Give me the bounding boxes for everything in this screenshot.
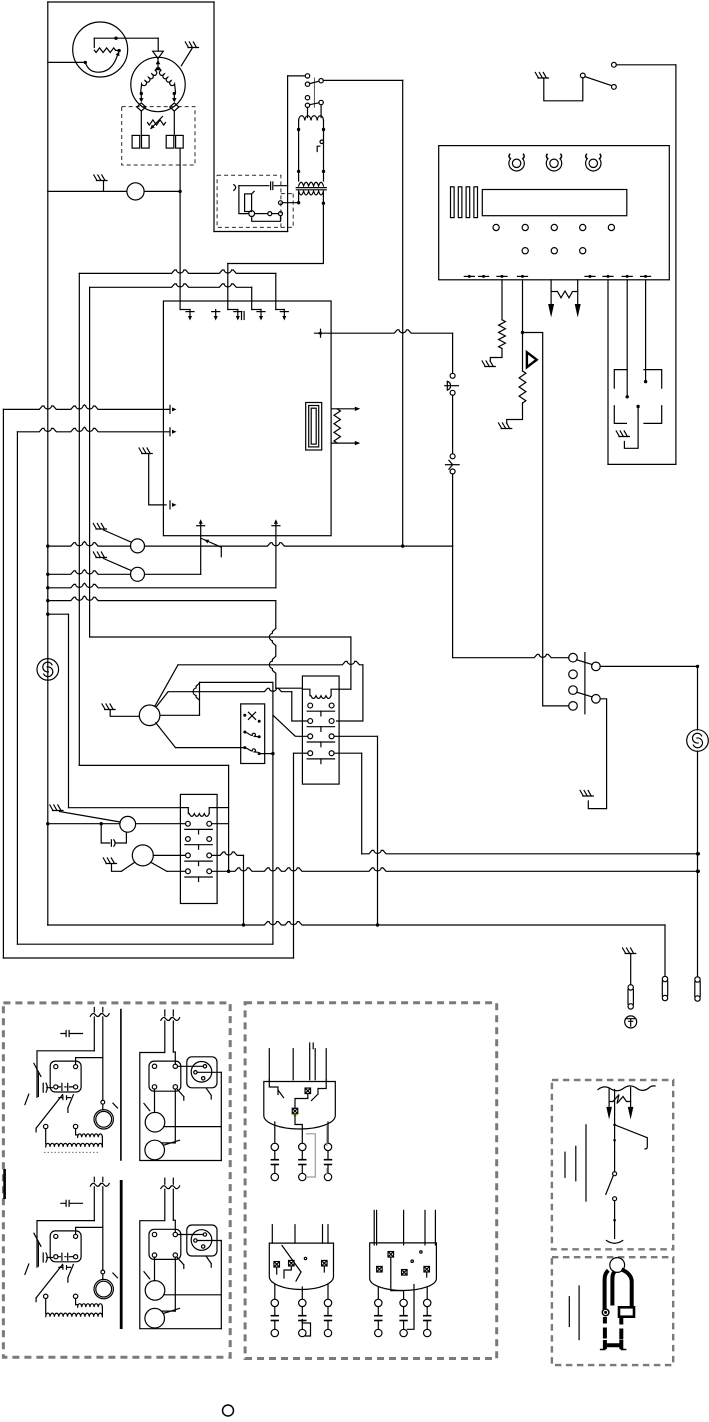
heater dropper resistor [550, 280, 552, 292]
display window [482, 190, 627, 216]
option box 2 border [245, 1003, 497, 1359]
fan motor M2 [37, 659, 59, 681]
board pin left 1 [172, 407, 177, 411]
control board outline [163, 301, 331, 536]
wire K3 row1 right [212, 823, 229, 825]
wire program to bus [261, 753, 273, 755]
wire pump to bus [200, 681, 273, 683]
control panel outline [439, 146, 670, 280]
wire motor out [197, 1071, 221, 1073]
wire board to pressure switches [315, 330, 453, 333]
wire K2 row3 right [334, 735, 377, 737]
board pin right [317, 331, 322, 335]
wire heater element [45, 1299, 47, 1314]
PTC resistor with arrow [148, 120, 166, 125]
capacitor marks [241, 312, 243, 320]
ground R1 [482, 361, 495, 367]
ground M4 [103, 858, 116, 864]
wire sensor left leg [239, 186, 249, 214]
motor terminal circle [101, 1270, 105, 1274]
heater connector block [306, 403, 322, 451]
wire line 3 [48, 583, 276, 588]
connector diagram 3 [370, 1210, 437, 1336]
pump motor M3 [139, 705, 160, 726]
aux motor housing [187, 1057, 217, 1088]
wire lock pin 1 [607, 280, 609, 465]
wire switch to panel column [323, 79, 402, 81]
timer relay box [50, 1231, 81, 1262]
motor terminal circle [101, 1100, 105, 1104]
sensor body rect [245, 194, 252, 212]
wire relay to motor [178, 1234, 204, 1236]
board pin left 2 [172, 430, 177, 434]
resistor heater sense [334, 409, 340, 443]
terminal cap mark [61, 1200, 83, 1206]
pressure switch P1 [450, 373, 455, 378]
wire break in [93, 1008, 95, 1013]
relay K3 contact 3 [186, 853, 191, 858]
wire supply line 1 [3, 405, 169, 410]
wire to start capacitor [173, 111, 175, 135]
wire K2 row4 right [334, 752, 362, 754]
indicator lamp L2 [550, 159, 558, 167]
wire line 4 to relay coil [48, 596, 276, 601]
ground T2 [93, 552, 106, 558]
wire fuse column [614, 1090, 616, 1172]
wire pin to bleed resistor [501, 280, 503, 320]
wire fuse tap [615, 1125, 648, 1149]
transformer T1 secondary [299, 191, 324, 195]
start device dashed box [122, 107, 195, 165]
option D diagram [140, 1178, 222, 1329]
wire bottom bus 1 [48, 922, 665, 925]
aux pump 2 [145, 1140, 165, 1160]
wire left rail [47, 2, 49, 925]
relay K2 contact 2 [308, 719, 313, 724]
wire M4 to relay row4 [151, 863, 167, 872]
ground T1 [93, 524, 106, 530]
door interlock lever [202, 539, 222, 548]
wire door switch ground leg [588, 699, 606, 809]
wire feed line C [79, 270, 275, 273]
lever marks [178, 1090, 184, 1101]
fuse switch [613, 1172, 617, 1176]
wire K3 row3 right [212, 852, 244, 855]
wire long vertical to wash level [402, 80, 404, 546]
wire K3 coil right [217, 807, 229, 809]
ground capsule1 [623, 948, 636, 954]
thermostat T2 [131, 567, 145, 581]
timer motor [94, 1110, 113, 1129]
wire aux rail [228, 765, 230, 871]
wire board pin2 line to motor relay [273, 715, 294, 735]
fuse capsule 3 [695, 977, 700, 982]
wire switch to relay coil [307, 108, 309, 118]
board pin bottom 2 [275, 522, 277, 536]
thermostat T1 [131, 539, 145, 553]
capacitor C-start plates [166, 135, 174, 148]
capacitor left [38, 1242, 43, 1266]
fuse capsule 1 [628, 985, 633, 990]
display segment bars [451, 187, 455, 218]
heater terminals [44, 1294, 48, 1298]
fuse capsule 2 [662, 976, 667, 981]
indicator lamp L1 [512, 159, 520, 167]
wire bus down to board pin [227, 264, 229, 310]
ground board [139, 448, 152, 454]
board pin bottom 1 [200, 522, 202, 536]
option box 1 border [3, 1003, 230, 1357]
wire pump top left [156, 692, 168, 707]
wire heat feed [79, 764, 228, 766]
wire relay to pump2 [174, 1257, 176, 1311]
relay K2 contact 4 [308, 751, 313, 756]
connector diagram 1 [264, 1043, 336, 1181]
panel connector pins [464, 275, 474, 277]
wire switch to right rail [616, 64, 676, 66]
relay K1 coil [299, 116, 324, 121]
board pin 1 [189, 310, 191, 318]
wire connector to transformer [283, 202, 299, 204]
capacitor T3 snubber [101, 824, 110, 843]
capacitor C3 [239, 185, 288, 187]
wire motor tap left [140, 94, 142, 101]
wire left rail to cutout [48, 190, 127, 192]
wire bus rail D [89, 287, 91, 637]
wire capacitor to thermal cutout [179, 148, 181, 309]
option box 4 border [552, 1257, 673, 1365]
panel buttons row 2 [522, 248, 528, 254]
relay K3 contact 4 [186, 869, 191, 874]
wire pump lower diagonal [156, 723, 176, 748]
wire pin to buzzer branch [522, 280, 524, 333]
lever marks [178, 1258, 184, 1269]
wire right rail [675, 65, 677, 465]
wire to door switch [453, 654, 569, 657]
wire relay to pump1 [154, 1089, 156, 1112]
wire jog pin5 [276, 309, 285, 311]
overload bimetal arc [85, 54, 118, 72]
relay contact marks [58, 1253, 73, 1260]
wire relay to pump1 [154, 1257, 156, 1280]
door switch contacts [569, 653, 578, 662]
wire motor tap right [173, 94, 175, 101]
wire bottom bus 3 [3, 957, 293, 959]
wire line 5 to wash relay coil [48, 613, 69, 615]
overload protector circle [73, 22, 128, 77]
wire to motor branch [102, 1187, 104, 1270]
wire pump1 out [164, 1126, 221, 1128]
wire door row4 feed [543, 705, 569, 707]
wire overload feed [48, 61, 86, 63]
wire relay to pump2 [174, 1089, 176, 1143]
wire to relay [172, 1189, 174, 1220]
relay K3 contact 2 [186, 837, 191, 842]
wire K2 row3 left [295, 735, 308, 738]
divider lower [120, 1180, 123, 1329]
wire T2 to board pin [145, 573, 201, 575]
wire K2 row4 left [294, 752, 308, 754]
wire right rail lower [697, 751, 699, 977]
main motor M4 circle [132, 845, 153, 866]
wire pump right [160, 714, 200, 716]
motor winding right [159, 68, 175, 92]
wire bus rail A [2, 409, 4, 958]
wire heater stub 1 [331, 408, 355, 410]
motor M1 circle [131, 57, 185, 111]
contact bars below [59, 1266, 71, 1270]
lock connector brackets [614, 370, 626, 389]
wire to relay left [37, 1051, 94, 1098]
capacitor left [38, 1073, 43, 1097]
motor relay K2 box [302, 676, 339, 784]
wire to capsule2 [664, 925, 666, 976]
connector diamond right [170, 103, 179, 111]
wire M4 to relay row3 [153, 854, 185, 856]
wire secondary right to bus [228, 191, 324, 263]
program contact 2 [243, 731, 246, 734]
panel buttons row 1 [493, 224, 499, 230]
wire bottom bus 2 [17, 943, 273, 945]
terminal cap mark [61, 1031, 83, 1037]
aux pump 1 [145, 1112, 165, 1132]
wire jog pin3 [228, 309, 238, 311]
thermal fuse diagram [565, 1086, 655, 1243]
option box 3 border [552, 1080, 673, 1249]
heater terminals [44, 1124, 48, 1128]
earth terminal [625, 1016, 637, 1028]
aux pump 1 [145, 1281, 165, 1301]
wire T3 to relay [136, 823, 186, 825]
wire jog pin4 [252, 309, 261, 311]
wire frame bottom to switch [214, 231, 288, 233]
wire lock pin 2 [626, 280, 628, 397]
wire lock pin 3 [645, 280, 647, 382]
relay K2 contact 1 [308, 703, 313, 708]
ground door lock [616, 431, 629, 437]
ground door contact [580, 791, 593, 797]
wire to motor branch [102, 1017, 104, 1100]
relay K3 contact 1 [186, 821, 191, 826]
wire bus rail B [16, 432, 18, 944]
wire break in [164, 1010, 166, 1016]
thermal cutout circle [127, 183, 144, 200]
thermostat T3 [120, 816, 136, 832]
wire frame right vertical [213, 2, 215, 232]
board pin 4 [260, 310, 262, 318]
aux motor housing [187, 1225, 217, 1256]
wire branch to door switch [523, 333, 543, 706]
wire relay to motor [178, 1065, 204, 1067]
wire connector links [255, 213, 268, 215]
connector diamond left [137, 103, 146, 111]
relay K3 coil [180, 808, 188, 814]
wire heat line [48, 823, 120, 825]
program contact 1 [243, 714, 246, 717]
wire pump1 out [164, 1294, 221, 1296]
contact bars below [59, 1096, 71, 1100]
wire overload to motor [94, 37, 158, 39]
transformer T1 primary [299, 182, 324, 186]
lever diagonals [34, 1233, 41, 1246]
wire pump top right [178, 661, 363, 664]
relay K1 contact [320, 140, 324, 144]
switch S3 pivot [580, 73, 585, 78]
wire top frame [48, 1, 214, 3]
aux relay box [149, 1229, 181, 1259]
connector 3 link wire [391, 1257, 404, 1299]
board pin left 3 [172, 503, 177, 507]
aux pump 2 [145, 1308, 165, 1328]
wire thermostat line 2 [48, 570, 131, 575]
terminal bars [564, 1152, 566, 1177]
relay contact marks [58, 1083, 73, 1090]
wire right rail upper [697, 666, 699, 729]
wire heater element [45, 1129, 47, 1144]
colour dot [223, 1405, 234, 1416]
wire door to right rail [600, 665, 697, 667]
motor apex triangle [153, 51, 164, 58]
relay K2 coil [302, 689, 310, 696]
option B diagram [140, 1010, 222, 1161]
capacitor C-run plates [132, 135, 140, 148]
board pin 5 [283, 310, 285, 318]
aux relay box [149, 1061, 181, 1091]
border tick [3, 1169, 6, 1199]
wire heater stub 2 [331, 442, 355, 444]
option C diagram [25, 1177, 118, 1316]
buzzer triangle [527, 352, 537, 367]
sensor grommet circle [249, 211, 255, 217]
wash relay K3 box [180, 794, 217, 903]
wire break in [93, 1177, 95, 1182]
overload heater resistor [93, 38, 95, 47]
wire drain line [362, 850, 699, 853]
wire break in [164, 1178, 166, 1184]
ground R2 [499, 423, 512, 429]
board pin 3 [237, 310, 239, 318]
ground door switch [535, 73, 548, 79]
board pin 2 [215, 310, 217, 318]
wire pin1 to thermostat line [200, 536, 202, 575]
wire pressure switch column [452, 333, 454, 373]
wire left loop [140, 1189, 222, 1329]
sensor dashed box [217, 175, 281, 227]
relay K2 contact 3 [308, 734, 313, 739]
wire lock ground loop [636, 405, 639, 408]
wire K3 row4 right long [212, 868, 699, 871]
wire feed line D [90, 284, 252, 287]
ground T3 [50, 805, 63, 811]
resistor R2 [519, 371, 526, 403]
pressure switch P2 [450, 454, 455, 459]
wire to run capacitor [140, 111, 142, 135]
ground pump [102, 704, 115, 710]
program contact 3 [243, 746, 246, 749]
wire lock box bottom [608, 463, 676, 465]
wire motor relay feed [90, 636, 351, 638]
wire main level line [145, 543, 453, 546]
divider upper [120, 1009, 122, 1161]
latch body [619, 1307, 634, 1316]
lever diagonals [34, 1063, 41, 1076]
drain motor M5 [687, 730, 709, 752]
wire to relay [172, 1021, 174, 1052]
indicator lamp L3 [589, 159, 597, 167]
connector circles [268, 212, 272, 216]
ground motor [185, 42, 198, 48]
wire motor out [197, 1240, 221, 1242]
wire cutout to capacitor branch [144, 190, 180, 192]
motor winding left [141, 68, 157, 92]
option A diagram [25, 1008, 118, 1153]
wire jog pin1 [180, 309, 190, 311]
resistor R1 [499, 320, 506, 349]
switch S3 lever [585, 77, 612, 86]
wire to R2 [522, 333, 524, 372]
ground cutout [94, 175, 107, 181]
door latch drawing [569, 1258, 634, 1350]
latch roller [602, 1309, 609, 1316]
wire left loop [140, 1021, 222, 1161]
transformer T1 core [296, 187, 326, 189]
wire secondary left [298, 191, 300, 203]
wire bus rail C [78, 273, 80, 765]
wire to relay left [37, 1221, 94, 1268]
connector diagram 2 [269, 1225, 333, 1337]
sensor arc [234, 185, 236, 191]
timer motor [94, 1279, 113, 1298]
switch S2 contacts [305, 74, 309, 78]
program switch box [241, 704, 265, 764]
door switch levers [577, 660, 592, 665]
latch terminal bars [568, 1297, 570, 1327]
timer relay box [50, 1061, 81, 1092]
wire supply line 2 [17, 427, 169, 432]
wire pin2 down [275, 536, 277, 588]
wire thermostat line 1 [48, 542, 131, 547]
